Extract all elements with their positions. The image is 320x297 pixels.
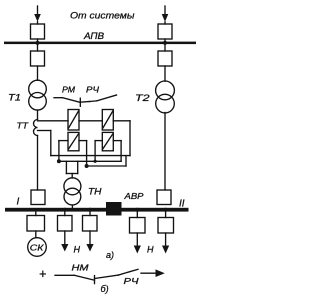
wire: collector line 2 (to ТН) <box>59 160 121 162</box>
top bus <box>4 42 196 45</box>
load arrow <box>162 233 169 254</box>
svg-text:АВР: АВР <box>123 191 143 201</box>
svg-text:ТН: ТН <box>88 186 102 196</box>
breaker: load feeder 3 <box>83 212 98 232</box>
contact РЧ <box>90 95 117 102</box>
contact РЧ <box>119 269 139 275</box>
wire: drops to ТН <box>66 161 77 178</box>
wire <box>164 66 166 81</box>
incoming feeder arrow right <box>162 6 169 24</box>
svg-text:НМ: НМ <box>72 263 90 273</box>
contact РМ <box>54 98 90 107</box>
breaker Q1 (left, above bus) <box>31 24 45 39</box>
wire: relay РЧ stirrup <box>95 141 121 162</box>
svg-text:АПВ: АПВ <box>83 31 104 41</box>
svg-text:I: I <box>17 197 20 208</box>
voltage transformer ТН <box>64 178 81 205</box>
sectionalizing breaker АВР (closed square, filled) <box>106 202 122 216</box>
contact НМ <box>74 275 94 283</box>
transformer T2 <box>156 81 175 113</box>
breaker above bus II <box>157 190 171 205</box>
svg-text:Н: Н <box>147 245 154 255</box>
breaker: load feeder 5 <box>158 212 174 234</box>
relay РМ (measuring element, two sections) <box>68 110 79 151</box>
svg-text:+: + <box>39 267 46 281</box>
node: right feeder on top bus <box>163 41 167 45</box>
node <box>135 208 139 212</box>
node <box>63 208 67 212</box>
node <box>57 159 61 163</box>
wire: main left feeder down to bus I breaker <box>37 136 39 191</box>
wire <box>55 274 74 276</box>
wire: relay РМ stirrup <box>59 141 87 166</box>
wire <box>37 39 39 42</box>
wire <box>164 39 166 42</box>
breaker: load feeder 2 <box>58 212 73 232</box>
breaker Q2 (right, above bus) <box>158 24 172 39</box>
current transformer TT <box>34 120 38 136</box>
svg-text:СК: СК <box>30 242 45 252</box>
breaker Q3 (left, below bus) <box>37 44 39 51</box>
wire: CT return <box>38 131 51 156</box>
lower bus <box>5 208 189 212</box>
wire: CT secondary to relays (series) <box>38 121 131 156</box>
svg-text:РМ: РМ <box>62 85 76 95</box>
load arrow <box>61 231 68 252</box>
load arrow <box>134 233 141 254</box>
synchronous condenser СК <box>28 238 47 257</box>
svg-text:Т1: Т1 <box>8 93 21 104</box>
node <box>85 164 89 168</box>
svg-text:От системы: От системы <box>70 11 135 22</box>
node: left feeder on top bus <box>35 41 39 45</box>
svg-text:Н: Н <box>74 244 81 254</box>
wire: collector line 3 <box>87 156 126 166</box>
wire <box>95 275 119 279</box>
node <box>88 208 92 212</box>
wire <box>35 231 37 238</box>
output arrow <box>141 269 165 277</box>
node <box>94 160 97 163</box>
breaker Q4 (right, below bus) <box>164 44 166 51</box>
wire: T2 down to bus II breaker <box>164 113 166 191</box>
load arrow <box>86 231 93 252</box>
relay РЧ (measuring element, two sections) <box>102 110 113 151</box>
breaker: feeder СК <box>27 212 45 232</box>
wire: T1 down to CT <box>37 110 39 120</box>
transformer T1 <box>29 80 47 110</box>
breaker: load feeder 4 <box>130 212 146 234</box>
svg-text:б): б) <box>101 284 109 294</box>
svg-text:а): а) <box>106 250 114 260</box>
svg-text:РЧ: РЧ <box>86 85 99 95</box>
svg-text:ТТ: ТТ <box>17 120 29 130</box>
breaker above bus I <box>31 190 45 205</box>
incoming feeder arrow left <box>34 6 41 24</box>
node <box>164 208 168 212</box>
wire: collector line 1 <box>51 155 130 157</box>
svg-text:РЧ: РЧ <box>124 276 139 286</box>
wire <box>37 66 39 80</box>
wire <box>71 205 73 209</box>
svg-text:Т2: Т2 <box>135 93 150 104</box>
